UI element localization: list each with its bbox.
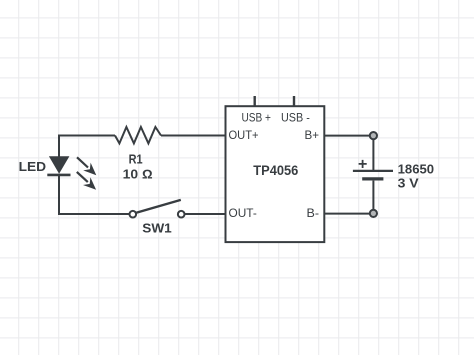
TP4056 module body U1 [226,106,325,242]
battery 18650: positive lead wire [372,140,374,171]
LED emission arrow 2 [77,172,96,190]
TP4056 USB- pin stub [293,96,295,106]
switch SW1 lever [136,200,181,213]
wire: LED anode up and right to resistor R1 [59,136,115,158]
LED cathode bar [47,174,70,177]
svg-text:18650: 18650 [398,162,435,177]
wire: TP4056 B+ to battery positive node [325,135,370,137]
battery 18650: negative lead wire [372,181,374,210]
wire: TP4056 B- to battery negative node [325,213,370,215]
svg-text:10 Ω: 10 Ω [123,168,153,182]
svg-text:TP4056: TP4056 [253,163,298,178]
svg-text:LED: LED [19,159,46,174]
battery 18650: positive plate (long) [353,170,393,172]
svg-text:3 V: 3 V [398,176,419,191]
LED emission arrow 1 [77,157,96,175]
wire: switch SW1 to TP4056 OUT- pin [185,213,226,215]
battery 18650: negative plate (short) [362,177,383,180]
battery 18650: plus sign [359,160,367,168]
TP4056 USB+ pin stub [253,96,255,106]
resistor R1 zigzag [115,127,161,143]
wire: resistor R1 to TP4056 OUT+ pin [161,135,226,137]
svg-text:USB +: USB + [241,112,271,125]
svg-text:SW1: SW1 [142,221,172,236]
svg-text:R1: R1 [129,153,143,167]
svg-text:OUT+: OUT+ [229,129,259,142]
LED diode triangle (anode) [49,156,70,174]
switch SW1 left contact circle [130,211,137,218]
junction node: battery + [370,132,377,139]
svg-text:OUT-: OUT- [229,207,257,220]
junction node: battery - [370,210,377,217]
svg-text:USB -: USB - [281,112,310,125]
svg-text:B+: B+ [305,129,320,142]
wire: LED cathode down and right to switch SW1 [59,176,129,214]
svg-text:B-: B- [307,207,320,220]
switch SW1 right contact circle [178,211,185,218]
